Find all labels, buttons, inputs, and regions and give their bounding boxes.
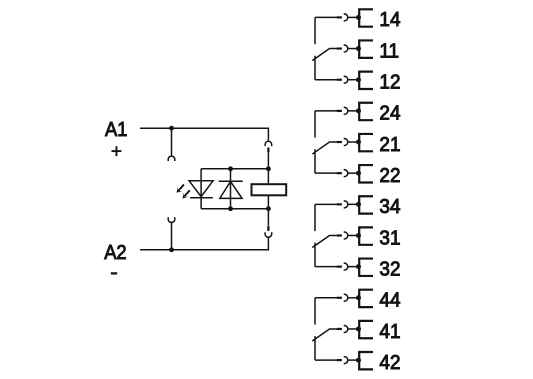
svg-text:24: 24 [379,102,400,125]
svg-text:41: 41 [379,320,400,343]
svg-text:34: 34 [379,196,400,219]
svg-text:12: 12 [379,71,400,94]
svg-text:22: 22 [379,164,400,187]
svg-text:42: 42 [379,351,400,374]
svg-text:32: 32 [379,258,400,281]
svg-text:44: 44 [379,289,400,312]
svg-text:21: 21 [379,133,400,156]
svg-text:14: 14 [379,9,400,32]
svg-text:11: 11 [379,40,399,63]
svg-text:A1: A1 [105,118,127,141]
svg-text:A2: A2 [104,241,126,264]
svg-text:31: 31 [379,227,400,250]
